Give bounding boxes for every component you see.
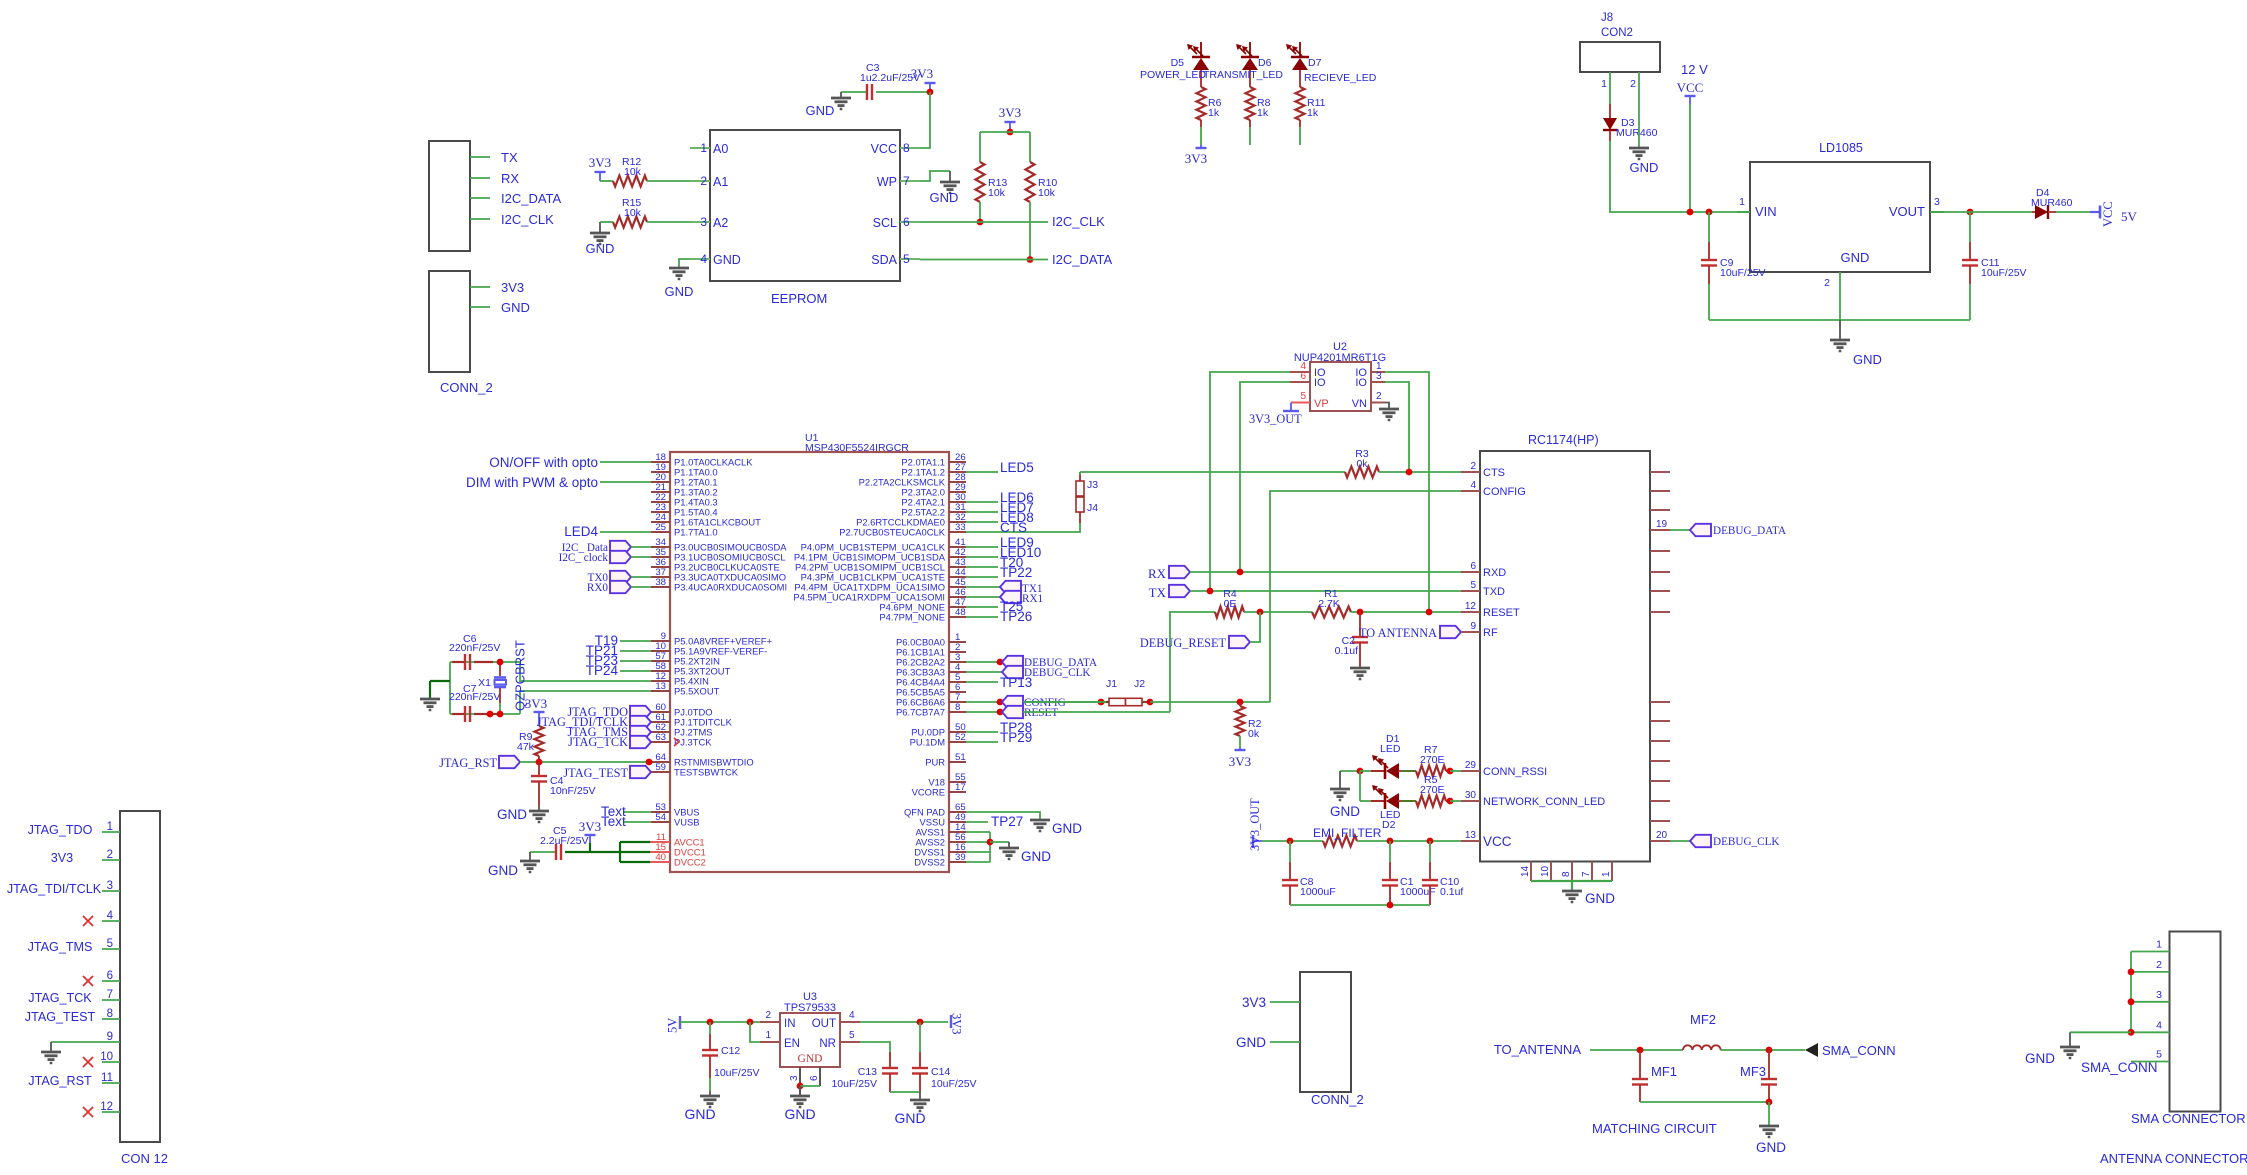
svg-text:C14: C14 <box>931 1066 950 1078</box>
svg-text:LD1085: LD1085 <box>1819 141 1863 155</box>
wire TP23 <box>620 660 651 662</box>
U1 pin 27 P2.1TA1.2 <box>949 471 966 473</box>
wire T25 <box>966 606 998 608</box>
svg-text:8: 8 <box>1561 871 1572 877</box>
svg-text:5: 5 <box>849 1030 855 1041</box>
power 3V3 at R12 <box>595 171 606 173</box>
diode D3 MUR460 <box>1609 104 1611 118</box>
CON12 pin 6 <box>102 980 120 982</box>
wire U2 pin4 to TXD <box>1210 372 1290 591</box>
junction C9 tap <box>1706 209 1713 216</box>
svg-text:3V3: 3V3 <box>51 851 73 865</box>
CON12 pin 1 <box>102 831 120 833</box>
svg-text:RESET: RESET <box>1483 607 1520 619</box>
svg-text:3: 3 <box>2156 989 2162 1001</box>
svg-text:PUR: PUR <box>925 757 945 768</box>
ground at C5 <box>529 852 531 861</box>
svg-text:CTS: CTS <box>1483 467 1505 479</box>
U1 pin 10 P5.1A9VREF-VEREF- <box>651 650 670 652</box>
wire DIM <box>600 481 651 483</box>
svg-text:51: 51 <box>955 752 966 763</box>
flag RX0 <box>610 581 631 593</box>
svg-text:220nF/25V: 220nF/25V <box>449 642 500 654</box>
svg-text:DEBUG_CLK: DEBUG_CLK <box>1713 836 1780 848</box>
resistor R9 47k <box>535 726 544 756</box>
svg-text:DEBUG_RESET: DEBUG_RESET <box>1140 636 1227 650</box>
wire CTS from pin33 <box>966 522 1080 532</box>
svg-text:1: 1 <box>1601 78 1607 90</box>
svg-text:2: 2 <box>1376 391 1382 402</box>
svg-text:54: 54 <box>655 812 666 823</box>
wire TP29 <box>966 741 998 743</box>
wire to VCC 5V <box>2056 211 2090 213</box>
svg-text:A1: A1 <box>713 175 728 189</box>
svg-text:5: 5 <box>107 938 113 950</box>
junction SMA pin2 <box>2128 969 2135 976</box>
svg-text:17: 17 <box>955 782 966 793</box>
wire below R11 <box>1299 127 1301 145</box>
RC1174 right stub <box>1650 760 1670 762</box>
wire RXD line <box>1190 571 1461 573</box>
U1 pin 63 clock mark <box>674 738 679 746</box>
svg-text:52: 52 <box>955 732 966 743</box>
junction MF1 <box>1637 1047 1644 1054</box>
wire T19 <box>620 640 651 642</box>
svg-text:47k: 47k <box>517 741 535 753</box>
U1 pin 42 P4.1PM_UCB1SIMOPM_UCB1SDA <box>949 556 966 558</box>
resistor R2 0k <box>1236 706 1245 736</box>
svg-text:10k: 10k <box>988 187 1006 199</box>
U1 pin 11 AVCC1 <box>650 841 670 843</box>
RC1174 bottom pin 14 <box>1530 862 1532 882</box>
wire RESET left vertical <box>1170 612 1215 712</box>
svg-text:48: 48 <box>955 607 966 618</box>
capacitor C7 220nF/25V leads <box>452 713 464 715</box>
wire RC1174 ground bus <box>1531 880 1612 882</box>
junction R2 top <box>1237 699 1244 706</box>
CON12 pin 12 <box>102 1111 120 1113</box>
resistor R12 10k <box>600 180 613 182</box>
wire T20 <box>966 566 998 568</box>
svg-text:39: 39 <box>955 852 966 863</box>
svg-text:2: 2 <box>2156 959 2162 971</box>
U1 pin 60 PJ.0TDO <box>651 711 670 713</box>
U1 pin 65 QFN PAD <box>949 811 966 813</box>
U1 pin 20 P1.2TA0.1 <box>651 481 670 483</box>
power 3V3_OUT at VP <box>1290 403 1292 412</box>
U1 pin 33 P2.7UCB0STEUCA0CLK <box>949 531 966 533</box>
svg-text:J3: J3 <box>1087 479 1098 491</box>
svg-text:5: 5 <box>1470 580 1476 591</box>
CON12 pin 11 <box>102 1082 120 1084</box>
svg-text:VCC: VCC <box>1483 834 1512 849</box>
wire AVSS1 <box>966 831 990 833</box>
capacitor C2 0.1uf <box>1359 612 1361 637</box>
RC1174 right stub <box>1650 571 1670 573</box>
wire crystal left rail <box>449 662 451 714</box>
RC1174 right stub <box>1650 720 1670 722</box>
svg-text:10uF/25V: 10uF/25V <box>714 1067 760 1079</box>
junction C1 bottom <box>1387 902 1394 909</box>
svg-text:0k: 0k <box>1248 728 1260 740</box>
RC1174 right stub <box>1650 611 1670 613</box>
diode D4 MUR460 <box>2032 211 2035 213</box>
connector CONN_2 bottom <box>1300 972 1351 1092</box>
RC1174 bottom pin 1 <box>1611 862 1613 882</box>
svg-text:P4.7PM_NONE: P4.7PM_NONE <box>879 612 945 623</box>
CON12 pin 3 <box>102 890 120 892</box>
wire VOUT <box>1944 211 2032 213</box>
wire U2 pin3 to CTS <box>1385 382 1409 472</box>
wire J8 pin1 down <box>1609 72 1611 104</box>
svg-text:0.1uf: 0.1uf <box>1335 645 1358 657</box>
connector CONN_2 (3V3/GND) <box>429 271 470 372</box>
RC1174 right stub <box>1650 701 1670 703</box>
junction R9/C4 <box>536 759 543 766</box>
EEPROM U? box <box>710 130 900 281</box>
svg-text:VCC: VCC <box>1677 80 1704 95</box>
svg-text:TXD: TXD <box>1483 586 1505 598</box>
U1 pin 25 P1.7TA1.0 <box>651 531 670 533</box>
x mark pin6 <box>83 976 93 986</box>
wire LED4 <box>600 531 651 533</box>
ground at C14 <box>919 1092 921 1100</box>
svg-text:3V3: 3V3 <box>525 696 547 711</box>
U3 pin 1 EN <box>760 1041 780 1043</box>
svg-text:P3.4UCA0RXDUCA0SOMI: P3.4UCA0RXDUCA0SOMI <box>674 582 787 593</box>
svg-text:5: 5 <box>903 252 910 266</box>
wire LED6 <box>966 501 998 503</box>
svg-text:3: 3 <box>107 880 113 892</box>
svg-text:9: 9 <box>107 1031 113 1043</box>
CON12 pin 10 <box>102 1061 120 1063</box>
U1 pin 15 DVCC1 <box>650 851 670 853</box>
junction MF3 <box>1766 1047 1773 1054</box>
wire pullup rail <box>980 131 1030 133</box>
wire Text 54 <box>624 821 651 823</box>
resistor R13 10k <box>979 132 981 162</box>
ground at CON12 <box>50 1042 52 1052</box>
wire SDA / I2C_DATA <box>920 259 1048 261</box>
svg-text:9: 9 <box>1470 621 1476 632</box>
wire ON/OFF <box>600 461 651 463</box>
flag I2C_Data <box>610 541 631 553</box>
U1 pin 30 P2.4TA2.1 <box>949 501 966 503</box>
svg-text:GND: GND <box>1236 1035 1266 1050</box>
svg-text:4: 4 <box>1470 480 1476 491</box>
U1 pin 56 AVSS2 <box>949 841 966 843</box>
pin 5 VP <box>1291 402 1310 404</box>
U1 pin 41 P4.0PM_UCB1STEPM_UCA1CLK <box>949 546 966 548</box>
U1 pin 52 PU.1DM <box>949 741 966 743</box>
svg-text:TP24: TP24 <box>586 663 619 678</box>
wire GND <box>470 306 490 308</box>
flag TX1 <box>966 586 1000 588</box>
U1 pin 6 P6.5CB5A5 <box>949 691 966 693</box>
svg-text:RX: RX <box>501 171 519 186</box>
wire NR <box>860 1042 890 1052</box>
power 5V at U3 <box>679 1016 681 1029</box>
svg-text:DIM with PWM & opto: DIM with PWM & opto <box>466 475 598 490</box>
wire crystal top node <box>450 661 520 663</box>
RC1174 right stub <box>1650 490 1670 492</box>
svg-text:4: 4 <box>2156 1019 2162 1031</box>
resistor R7 270E <box>1398 770 1402 772</box>
svg-text:D6: D6 <box>1258 57 1272 69</box>
svg-text:CONN_RSSI: CONN_RSSI <box>1483 766 1547 778</box>
wire EMI to VCC pin <box>1357 840 1461 842</box>
flag JTAG_TMS <box>630 726 651 738</box>
wire CONFIG flag to J1 <box>1021 701 1101 703</box>
ground at VN <box>1385 403 1389 410</box>
svg-text:38: 38 <box>655 577 666 588</box>
pin 2 GND stem <box>1839 272 1841 320</box>
wire TP28 <box>966 731 998 733</box>
junction J2 right <box>1147 699 1154 706</box>
svg-text:ANTENNA CONNECTOR: ANTENNA CONNECTOR <box>2100 1151 2247 1166</box>
wire 3V3 to VCC pin8 <box>920 92 930 148</box>
ground at C3 <box>831 97 851 100</box>
RC1174 bottom pin 8 <box>1571 862 1573 882</box>
wire CONFIG to J1 <box>1023 701 1106 703</box>
U1 pin 59 TESTSBWTCK <box>651 771 670 773</box>
svg-text:I2C_CLK: I2C_CLK <box>1052 214 1105 229</box>
power 3V3_OUT at EMI <box>1252 835 1254 848</box>
flag DEBUG_DATA <box>1690 524 1711 536</box>
wire MF2 to arrow <box>1721 1049 1805 1051</box>
wire DEBUG_RESET elbow <box>1250 612 1260 642</box>
wire crystal bottom node <box>450 713 520 715</box>
wire CTS up corner <box>1079 472 1081 475</box>
RC1174 right stub <box>1650 800 1670 802</box>
svg-text:20: 20 <box>1656 830 1668 841</box>
svg-text:40: 40 <box>655 852 666 863</box>
jumper J3 <box>1079 472 1081 481</box>
U1 pin 40 DVCC2 <box>650 861 670 863</box>
svg-text:GND: GND <box>488 863 518 878</box>
ground at WP <box>940 181 960 184</box>
svg-text:TRANSMIT_LED: TRANSMIT_LED <box>1203 69 1283 81</box>
svg-text:LED: LED <box>1380 743 1401 755</box>
crystal X1 QZPCBRST <box>499 662 501 676</box>
ground at crystal <box>429 681 431 699</box>
flag RESET U1 <box>966 711 1002 713</box>
svg-text:C12: C12 <box>721 1045 740 1057</box>
svg-text:X1: X1 <box>478 677 491 689</box>
wire cap ground rail <box>1290 904 1430 906</box>
U1 pin 23 P1.5TA0.4 <box>651 511 670 513</box>
ground at C2 <box>1350 667 1370 670</box>
pin 4 GND <box>690 258 710 260</box>
svg-text:1: 1 <box>765 1030 771 1041</box>
wire matching bottom <box>1640 1101 1769 1103</box>
svg-text:CON 12: CON 12 <box>121 1151 168 1166</box>
wire XOUT <box>520 691 651 714</box>
flag DEBUG_CLK <box>1690 835 1711 847</box>
svg-text:13: 13 <box>1465 830 1477 841</box>
svg-text:TX: TX <box>1149 585 1167 600</box>
svg-text:DEBUG_DATA: DEBUG_DATA <box>1713 525 1786 537</box>
RC1174 pin 4 CONFIG <box>1461 490 1480 492</box>
svg-text:GND: GND <box>784 1106 815 1122</box>
svg-text:3V3: 3V3 <box>1242 995 1266 1010</box>
svg-text:TP13: TP13 <box>1000 675 1032 690</box>
flag JTAG_TDO <box>630 706 651 718</box>
resistor R11 1k <box>1296 87 1305 120</box>
svg-text:I2C_CLK: I2C_CLK <box>501 212 554 227</box>
svg-text:GND: GND <box>1330 804 1360 819</box>
U1 pin 64 RSTNMISBWTDIO <box>651 761 670 763</box>
pin 7 WP <box>900 180 920 182</box>
svg-text:GND: GND <box>501 300 530 315</box>
flag CONFIG U1 <box>966 701 1002 703</box>
svg-text:3V3: 3V3 <box>999 105 1021 120</box>
pin 1 A0 <box>690 147 710 149</box>
SMA pin 4 <box>2131 1031 2170 1033</box>
svg-text:63: 63 <box>655 732 666 743</box>
wire TP26 <box>966 616 998 618</box>
SMA pin 1 <box>2131 951 2170 953</box>
junction U2pin3/CTS <box>1406 469 1413 476</box>
U1 pin 62 PJ.2TMS <box>651 731 670 733</box>
junction SMA pin4 <box>2128 1029 2135 1036</box>
svg-text:19: 19 <box>1656 519 1668 530</box>
U1 pin 28 P2.2TA2CLKSMCLK <box>949 481 966 483</box>
junction C14 top <box>917 1019 924 1026</box>
svg-text:DVSS2: DVSS2 <box>914 857 945 868</box>
ground at RC1174 <box>1571 881 1573 891</box>
wire TX <box>470 156 490 158</box>
pin 3 IO <box>1371 381 1385 383</box>
RC1174 pin 6 RXD <box>1461 571 1480 573</box>
RC1174 right stub <box>1650 780 1670 782</box>
capacitor C11 10uF/25V <box>1967 209 1974 216</box>
resistor R5 270E <box>1398 800 1402 802</box>
svg-text:RECIEVE_LED: RECIEVE_LED <box>1304 72 1377 84</box>
svg-text:GND: GND <box>1021 849 1051 864</box>
flag TO ANTENNA <box>1440 626 1461 638</box>
svg-text:RX: RX <box>1148 566 1167 581</box>
resistor R4 0E <box>1215 607 1244 618</box>
wire to crystal ground <box>430 680 450 682</box>
flag JTAG_TEST <box>630 766 651 778</box>
RC1174 right stub <box>1650 840 1670 842</box>
RC1174 pin 13 VCC <box>1461 840 1480 842</box>
U1 pin 44 P4.3PM_UCB1CLKPM_UCA1STE <box>949 576 966 578</box>
wire D3 to VIN rail <box>1610 141 1737 212</box>
wire below R6 <box>1200 127 1202 145</box>
svg-text:2: 2 <box>107 849 113 861</box>
U1 pin 2 P6.1CB1A1 <box>949 651 966 653</box>
wire TP24 <box>620 670 651 672</box>
flag RX <box>1169 566 1190 578</box>
svg-text:10k: 10k <box>624 207 642 219</box>
svg-text:VUSB: VUSB <box>674 817 700 828</box>
svg-text:GND: GND <box>1853 352 1882 367</box>
pin 1 IO <box>1371 371 1385 373</box>
wire TXD line <box>1190 590 1461 592</box>
svg-text:A0: A0 <box>713 142 728 156</box>
svg-text:6: 6 <box>107 970 113 982</box>
svg-text:10uF/25V: 10uF/25V <box>831 1078 877 1090</box>
ground at EEPROM pin4 <box>669 267 689 270</box>
svg-text:VCORE: VCORE <box>912 787 945 798</box>
svg-text:2: 2 <box>765 1010 771 1021</box>
U1 pin 39 DVSS2 <box>949 861 966 863</box>
U1 pin 34 P3.0UCB0SIMOUCB0SDA <box>651 546 670 548</box>
U1 pin 18 P1.0TA0CLKACLK <box>651 461 670 463</box>
junction R7 <box>1447 768 1454 775</box>
svg-text:0k: 0k <box>1356 458 1368 470</box>
svg-text:33: 33 <box>955 522 966 533</box>
svg-text:A2: A2 <box>713 216 728 230</box>
svg-text:3: 3 <box>789 1075 800 1081</box>
U1 pin 49 VSSU <box>949 821 966 823</box>
svg-text:D2: D2 <box>1382 819 1396 831</box>
CON12 pin 4 <box>102 920 120 922</box>
svg-text:TESTSBWTCK: TESTSBWTCK <box>674 767 739 778</box>
wire AVSS bus <box>989 832 991 862</box>
arrow SMA_CONN <box>1805 1043 1818 1057</box>
regulator LD1085 box <box>1750 162 1930 272</box>
svg-text:ON/OFF with opto: ON/OFF with opto <box>489 455 598 470</box>
junction R4/DEBUG_RESET <box>1257 609 1264 616</box>
U1 pin 12 P5.4XIN <box>651 680 670 682</box>
wire I2C_CLK <box>470 218 490 220</box>
wire XIN <box>520 662 651 681</box>
svg-text:10nF/25V: 10nF/25V <box>550 785 596 797</box>
U3 bottom pins 3/6 <box>799 1067 801 1086</box>
svg-text:6: 6 <box>809 1075 820 1081</box>
svg-text:6: 6 <box>1470 561 1476 572</box>
wire 5V line <box>680 1021 760 1023</box>
flag JTAG_TDI/TCLK <box>630 716 651 728</box>
svg-text:VCC: VCC <box>871 142 897 156</box>
svg-text:2.2uF/25V: 2.2uF/25V <box>540 835 588 847</box>
svg-text:3: 3 <box>1934 196 1940 208</box>
svg-text:VCC: VCC <box>2101 201 2115 227</box>
flag DEBUG_DATA U1 <box>966 661 1000 663</box>
svg-text:TX: TX <box>501 150 518 165</box>
svg-text:30: 30 <box>1465 790 1477 801</box>
svg-text:NR: NR <box>819 1038 836 1050</box>
wire RX <box>470 177 490 179</box>
svg-text:1: 1 <box>700 141 707 155</box>
wire pin4 GND elbow <box>679 259 690 268</box>
pin 8 VCC <box>900 147 920 149</box>
svg-text:7: 7 <box>1581 871 1592 877</box>
svg-text:GND: GND <box>1630 160 1659 175</box>
svg-text:10: 10 <box>1540 865 1551 877</box>
wire TP13 <box>966 681 998 683</box>
wire I2C_DATA <box>470 197 490 199</box>
svg-text:P1.7TA1.0: P1.7TA1.0 <box>674 527 718 538</box>
U1 pin 7 P6.6CB6A6 <box>949 701 966 703</box>
svg-text:5: 5 <box>2156 1049 2162 1061</box>
resistor R3 0k <box>1345 467 1379 478</box>
capacitor C10 0.1uf <box>1429 841 1431 862</box>
junction VCC/VIN <box>1687 209 1694 216</box>
svg-text:1: 1 <box>1601 871 1612 877</box>
capacitor C7 220nF/25V <box>464 706 466 722</box>
svg-text:VN: VN <box>1352 398 1367 410</box>
ground at LD1085 <box>1839 320 1841 340</box>
svg-text:JTAG_TEST: JTAG_TEST <box>563 766 628 780</box>
connector CONN_2 (TX/RX/I2C) <box>429 141 470 251</box>
svg-text:11: 11 <box>101 1072 113 1084</box>
svg-text:JTAG_TCK: JTAG_TCK <box>568 735 628 749</box>
svg-text:1: 1 <box>107 821 113 833</box>
